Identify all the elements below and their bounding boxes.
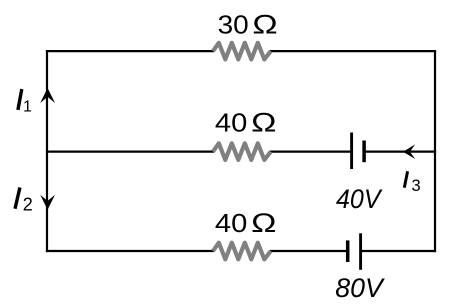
svg-text:40: 40 — [215, 210, 247, 238]
svg-text:1: 1 — [23, 98, 32, 115]
svg-text:40V: 40V — [336, 184, 383, 214]
svg-text:40: 40 — [215, 109, 247, 137]
svg-text:30: 30 — [218, 11, 249, 39]
svg-text:3: 3 — [412, 177, 421, 195]
svg-text:Ω: Ω — [252, 9, 277, 39]
svg-text:Ω: Ω — [251, 208, 276, 238]
svg-text:2: 2 — [23, 194, 33, 214]
svg-text:Ω: Ω — [251, 107, 276, 137]
svg-text:80V: 80V — [335, 273, 385, 303]
